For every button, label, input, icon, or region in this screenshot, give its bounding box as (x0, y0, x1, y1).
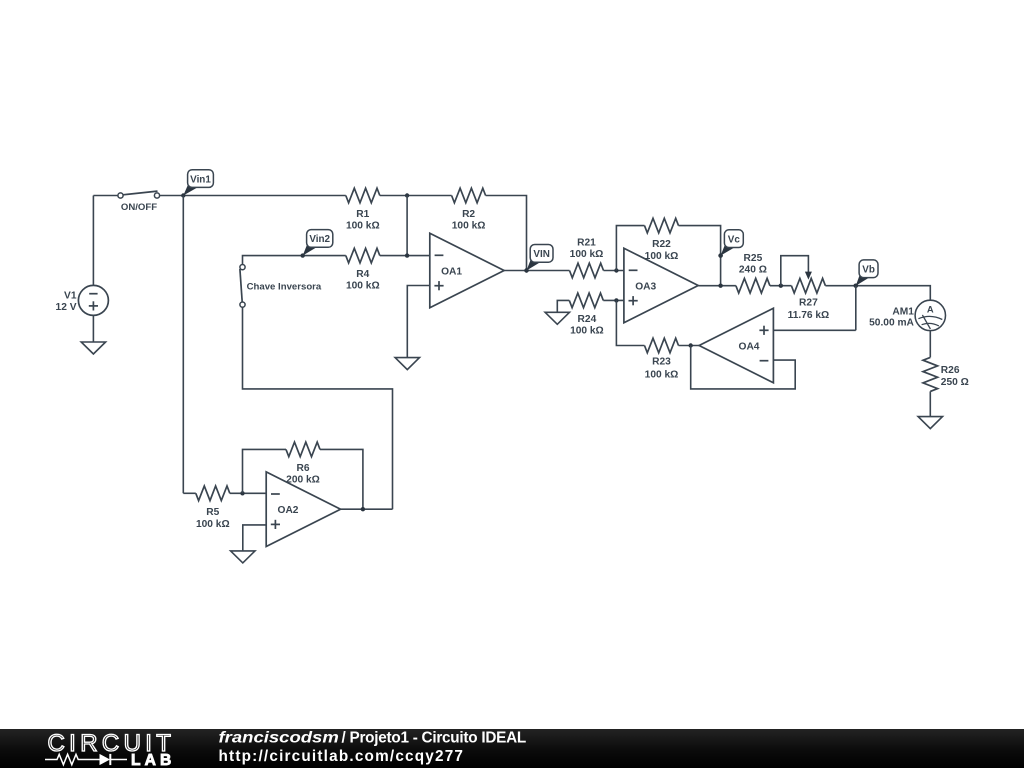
svg-text:OA4: OA4 (739, 341, 760, 352)
ammeter AM1 (869, 300, 945, 330)
wire R4 to OA1 (380, 253, 430, 257)
svg-text:11.76 kΩ: 11.76 kΩ (788, 310, 830, 321)
svg-text:R5: R5 (206, 507, 219, 518)
op-amp OA4 (699, 308, 773, 383)
svg-text:R21: R21 (577, 238, 596, 249)
wire junction column (406, 196, 408, 256)
label R22 value (645, 239, 679, 262)
svg-text:R23: R23 (652, 357, 671, 368)
wire AM1 to R26 (929, 331, 931, 358)
svg-text:100 kΩ: 100 kΩ (196, 519, 230, 530)
svg-text:V1: V1 (64, 290, 77, 301)
svg-text:100 kΩ: 100 kΩ (645, 369, 679, 380)
footer bar with CircuitLab logo (0, 729, 1024, 768)
ground below R26 (918, 417, 942, 429)
svg-text:http://circuitlab.com/ccqy277: http://circuitlab.com/ccqy277 (219, 748, 465, 765)
resistor R25 (736, 278, 770, 293)
label R4 value (346, 269, 380, 292)
ground at R24 (545, 312, 569, 324)
node VIN flag (524, 245, 553, 273)
resistor R5 (196, 486, 230, 501)
ground at OA1 plus (395, 358, 419, 370)
svg-text:AM1: AM1 (892, 307, 914, 318)
svg-text:OA3: OA3 (635, 281, 656, 292)
svg-text:100 kΩ: 100 kΩ (570, 326, 604, 337)
svg-text:LAB: LAB (131, 752, 175, 768)
wire R6 to OA2 output (320, 449, 363, 509)
wire OA3 feedback up (616, 226, 644, 271)
wire OA4 plus input (773, 329, 855, 331)
label R25 value (739, 253, 767, 276)
svg-text:100 kΩ: 100 kΩ (346, 221, 380, 232)
wire OA4 minus feedback loop (691, 346, 796, 389)
switch SW1 ON/OFF (118, 191, 160, 213)
wire OA2 feedback up (243, 449, 287, 493)
svg-text:Vin1: Vin1 (190, 174, 211, 185)
wire R24 to ground (557, 300, 569, 312)
wire OA2 output (341, 507, 393, 511)
op-amp OA3 (624, 248, 698, 323)
wire OA1 output (504, 268, 569, 272)
wire R21 to OA3 (604, 268, 624, 272)
resistor R21 (570, 263, 604, 278)
wire V1 bottom lead (92, 315, 94, 342)
svg-text:Vb: Vb (862, 265, 875, 276)
label R21 value (570, 238, 604, 260)
svg-text:100 kΩ: 100 kΩ (346, 281, 380, 292)
resistor R26 (923, 357, 938, 391)
node Vb flag (854, 260, 878, 288)
wire switch to R1 (160, 195, 346, 197)
label R23 value (645, 357, 679, 381)
switch SW2 Chave Inversora (240, 265, 322, 308)
wire R24 to OA3 plus (603, 298, 624, 302)
wire R5 to OA2 (230, 491, 266, 495)
svg-text:R22: R22 (652, 239, 671, 250)
wire OA2 plus to ground (243, 525, 266, 551)
svg-text:100 kΩ: 100 kΩ (570, 249, 604, 260)
label R27 value (788, 298, 830, 321)
node Vin1 flag (181, 170, 213, 198)
svg-text:/ Projeto1 - Circuito IDEAL: / Projeto1 - Circuito IDEAL (342, 729, 526, 746)
svg-text:100 kΩ: 100 kΩ (452, 221, 486, 232)
svg-text:Vin2: Vin2 (309, 234, 330, 245)
svg-text:R4: R4 (356, 269, 369, 280)
op-amp OA1 (430, 233, 504, 308)
label R2 value (452, 209, 486, 232)
svg-text:50.00 mA: 50.00 mA (869, 317, 914, 328)
label R1 value (346, 209, 380, 232)
label R26 value (941, 365, 969, 388)
svg-text:250 Ω: 250 Ω (941, 377, 969, 388)
wire V1 top lead (93, 196, 118, 286)
potentiometer R27 (781, 256, 826, 293)
label R5 value (196, 507, 230, 530)
footer title and url (219, 729, 526, 765)
node Vin2 flag (301, 230, 333, 258)
svg-text:R27: R27 (799, 298, 818, 309)
svg-text:franciscodsm: franciscodsm (219, 729, 339, 746)
svg-text:R25: R25 (744, 253, 763, 264)
ground at OA2 plus (231, 551, 255, 563)
wire R1 to R2 with junction (380, 193, 452, 197)
wire R26 to ground (929, 391, 931, 416)
resistor R1 (346, 188, 380, 203)
svg-text:OA1: OA1 (441, 266, 462, 277)
resistor R23 (645, 338, 679, 353)
label R6 value (286, 463, 320, 486)
wire R27 to AM1 (825, 284, 930, 301)
svg-text:R26: R26 (941, 365, 960, 376)
wire Chave to R4 (243, 256, 346, 265)
svg-text:R2: R2 (462, 209, 475, 220)
ground below V1 (81, 342, 105, 354)
node Vc flag (718, 230, 743, 258)
wire R25 to R27 (770, 284, 792, 288)
wire Vb down to OA4 plus (855, 286, 857, 331)
svg-text:12 V: 12 V (56, 302, 77, 313)
wire OA1 plus to ground (407, 286, 430, 358)
wire R23 to OA4 output (679, 343, 700, 347)
wire Vin1 down to R5 (182, 196, 184, 494)
wire R22 to OA3 output (679, 226, 723, 286)
resistor R22 (645, 218, 679, 233)
svg-text:A: A (927, 304, 934, 315)
wire OA3 out to R25 (698, 284, 736, 288)
svg-text:R24: R24 (578, 314, 597, 325)
wire OA3 plus down to R23 (616, 300, 644, 345)
resistor R6 (286, 442, 320, 457)
op-amp OA2 (266, 472, 340, 547)
svg-text:VIN: VIN (533, 249, 549, 260)
label R24 value (570, 314, 604, 337)
wire Chave down to OA2 out (243, 307, 393, 509)
resistor R24 (569, 293, 603, 308)
wire R2 to VIN corner (486, 196, 527, 271)
wire to R5 (183, 492, 196, 494)
svg-text:Vc: Vc (728, 234, 741, 245)
svg-text:100 kΩ: 100 kΩ (645, 251, 679, 262)
svg-text:OA2: OA2 (278, 505, 299, 516)
svg-text:R1: R1 (356, 209, 369, 220)
svg-text:240 Ω: 240 Ω (739, 264, 767, 275)
resistor R2 (452, 188, 486, 203)
resistor R4 (346, 248, 380, 263)
svg-text:Chave Inversora: Chave Inversora (247, 282, 322, 293)
voltage source V1 (56, 285, 109, 315)
svg-text:ON/OFF: ON/OFF (121, 202, 157, 213)
svg-text:R6: R6 (296, 463, 309, 474)
